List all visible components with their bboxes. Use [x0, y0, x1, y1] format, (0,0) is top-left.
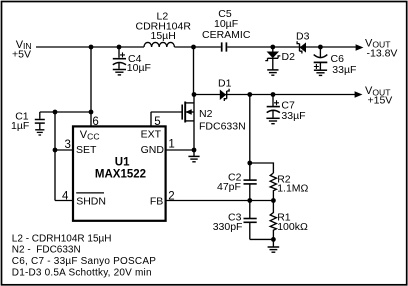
label VIN [12, 39, 32, 61]
node (FB / C-column) [247, 198, 252, 203]
label VOUT +15V [365, 85, 392, 106]
svg-text:D3: D3 [296, 31, 310, 43]
node (FB / R-column) [271, 198, 276, 203]
diode D1 [218, 78, 232, 101]
node (rail2 / divider) [247, 92, 252, 97]
svg-text:+15V: +15V [368, 94, 393, 106]
node (rail2 / N2 drain) [192, 92, 197, 97]
svg-text:MAX1522: MAX1522 [95, 169, 146, 181]
svg-text:SHDN: SHDN [76, 196, 106, 208]
svg-text:EXT: EXT [141, 129, 162, 141]
svg-text:33µF: 33µF [332, 64, 356, 76]
svg-text:D1-D3 0.5A Schottky, 20V min: D1-D3 0.5A Schottky, 20V min [12, 268, 152, 279]
svg-text:1µF: 1µF [11, 120, 29, 132]
node (rail2 / C7) [271, 92, 276, 97]
pin 5 wire [150, 112, 152, 126]
svg-text:47pF: 47pF [217, 181, 241, 193]
svg-text:C6, C7 - 33µF Sanyo POSCAP: C6, C7 - 33µF Sanyo POSCAP [12, 256, 156, 267]
arrow to VOUT -13.8V [356, 45, 362, 50]
svg-text:-13.8V: -13.8V [367, 47, 398, 59]
capacitor C7 [266, 95, 305, 124]
svg-text:10µF: 10µF [127, 62, 151, 74]
label VOUT -13.8V [365, 37, 397, 59]
svg-text:1.1MΩ: 1.1MΩ [277, 183, 308, 195]
svg-text:6: 6 [92, 116, 98, 128]
node (rail1 / down-link) [191, 45, 196, 50]
wire rail1-rail2 link [193, 47, 195, 95]
notes text block [12, 233, 156, 278]
arrow to VOUT +15V [355, 92, 361, 97]
svg-text:SET: SET [76, 144, 97, 156]
wire middle rail [194, 94, 355, 96]
svg-text:L2 - CDRH104R 15µH: L2 - CDRH104R 15µH [12, 233, 112, 244]
svg-text:+5V: +5V [12, 49, 31, 61]
wire top rail left (VIN to L2) [36, 46, 144, 48]
ground (divider) [268, 239, 280, 252]
wire tee to R2 [250, 163, 274, 173]
wire divider drop (rail2 to C2) [249, 95, 251, 180]
svg-text:3: 3 [65, 139, 71, 151]
node (rail1 / D2) [270, 45, 275, 50]
pin 4 wire [55, 200, 73, 202]
capacitor C1 [11, 111, 45, 135]
inductor L2 [136, 11, 192, 48]
node (C1 wire / pin6 line) [89, 110, 94, 115]
transistor N2 (MOSFET) [151, 95, 246, 151]
resistor R1 [270, 201, 308, 240]
resistor R2 [270, 173, 308, 201]
node (N2 source / GND pin) [192, 148, 197, 153]
node (divider bottom) [271, 237, 276, 242]
U1 labels [76, 129, 164, 208]
pin 2 wire (FB) [166, 200, 274, 202]
wire top rail (C5 to arrow) [227, 46, 356, 48]
wire SET/SHDN drop [54, 112, 56, 201]
svg-text:100kΩ: 100kΩ [277, 221, 308, 233]
pin 6 wire [90, 47, 92, 126]
capacitor C3 [213, 201, 257, 240]
node (divider tee to R2) [247, 161, 252, 166]
capacitor C2 [217, 171, 257, 200]
svg-text:330pF: 330pF [213, 221, 243, 233]
svg-text:N2 - FDC633N: N2 - FDC633N [12, 245, 81, 256]
svg-text:FB: FB [150, 196, 163, 208]
svg-text:5: 5 [154, 116, 160, 128]
diode D3 [296, 31, 310, 54]
node (rail1 / C4) [117, 45, 122, 50]
node (rail1 / pin6 drop) [89, 45, 94, 50]
svg-text:CERAMIC: CERAMIC [202, 29, 251, 41]
svg-text:1: 1 [168, 138, 174, 150]
node (rail1 / C6) [318, 45, 323, 50]
wire C1 to pin6 drop [40, 111, 91, 113]
wire top rail (L2 to C5) [174, 46, 221, 48]
IC U1 box [73, 126, 166, 220]
capacitor C4 [113, 47, 151, 75]
svg-text:N2: N2 [199, 108, 213, 120]
node (SET tee) [53, 148, 58, 153]
svg-text:FDC633N: FDC633N [199, 120, 246, 132]
svg-text:33µF: 33µF [281, 110, 305, 122]
pin 1 wire [166, 149, 194, 151]
capacitor C5 [202, 8, 251, 52]
pin 3 wire [55, 149, 73, 151]
node (C1 wire / SET-SHDN drop) [53, 110, 58, 115]
svg-text:D1: D1 [218, 78, 232, 90]
diode D2 [265, 47, 295, 75]
svg-text:U1: U1 [115, 156, 130, 168]
svg-text:D2: D2 [282, 51, 296, 63]
capacitor C6 [314, 47, 357, 76]
svg-text:GND: GND [141, 144, 165, 156]
ground (N2 source) [188, 150, 199, 162]
svg-text:VCC: VCC [80, 129, 100, 141]
wire divider bottom [250, 238, 274, 240]
svg-text:2: 2 [168, 190, 174, 202]
svg-text:15µH: 15µH [151, 30, 176, 42]
svg-text:4: 4 [62, 190, 69, 202]
